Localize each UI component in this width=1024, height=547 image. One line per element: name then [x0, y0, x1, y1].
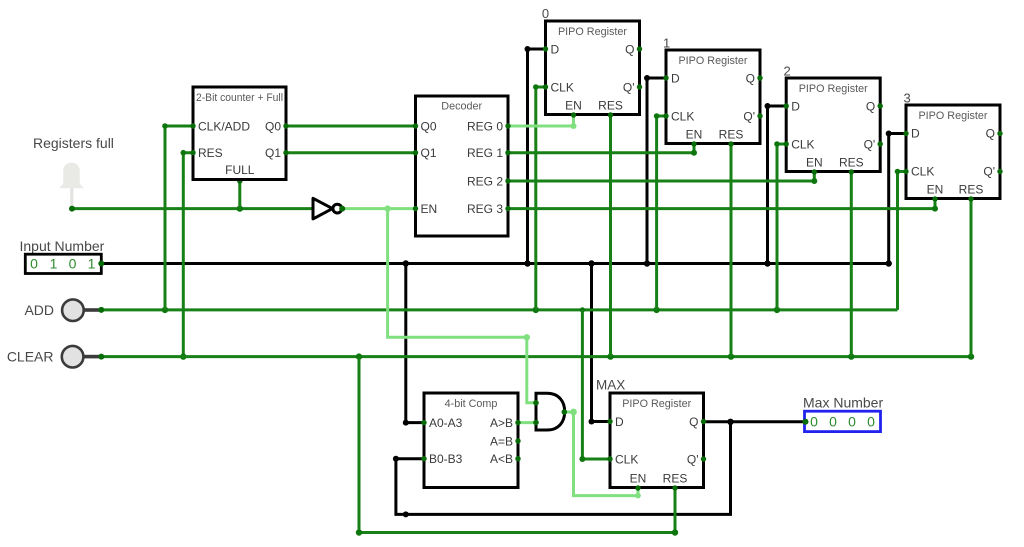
- svg-text:4-bit Comp: 4-bit Comp: [445, 398, 498, 410]
- svg-text:Q1: Q1: [421, 146, 437, 160]
- wire: MAX Q feedback to B0-B3 of comparator (black): [393, 422, 731, 518]
- wire: MAX Q to Max Number display (black): [727, 419, 804, 425]
- svg-text:CLK: CLK: [671, 109, 694, 123]
- svg-text:Q': Q': [623, 80, 635, 94]
- svg-text:REG 1: REG 1: [467, 146, 503, 160]
- svg-text:1: 1: [663, 36, 670, 51]
- Decoder box U2: [413, 96, 511, 236]
- svg-text:EN: EN: [421, 202, 438, 216]
- wire: CLK column of PIPO 1: [654, 113, 666, 310]
- wire: CLEAR branch to MAX RES (bottom green bus): [356, 357, 678, 536]
- wire: bus branch to D of PIPO 3: [886, 131, 906, 264]
- svg-text:EN: EN: [806, 156, 823, 170]
- svg-text:EN: EN: [927, 183, 944, 197]
- svg-text:MAX: MAX: [596, 378, 625, 393]
- svg-text:Q: Q: [625, 42, 634, 56]
- 2-bit counter box U1: [190, 87, 288, 180]
- wire: comparator A>B to AND gate input (light green): [518, 421, 536, 424]
- svg-text:REG 0: REG 0: [467, 119, 503, 133]
- svg-text:REG 2: REG 2: [467, 174, 503, 188]
- svg-text:EN: EN: [565, 99, 582, 113]
- wire: decoder REG 2 to PIPO 2 EN: [508, 172, 817, 185]
- svg-text:CLK: CLK: [615, 452, 638, 466]
- svg-text:Q: Q: [689, 415, 698, 429]
- svg-text:D: D: [911, 126, 920, 140]
- Input Number display IN1: [20, 238, 105, 274]
- svg-text:Q': Q': [743, 109, 755, 123]
- svg-text:RES: RES: [719, 128, 744, 142]
- svg-text:D: D: [615, 415, 624, 429]
- svg-text:CLK/ADD: CLK/ADD: [198, 119, 250, 133]
- 4-bit comparator box U4: [421, 393, 520, 488]
- wire: counter Q0 to decoder Q0: [286, 125, 416, 128]
- svg-text:D: D: [551, 42, 560, 56]
- svg-text:B0-B3: B0-B3: [429, 452, 463, 466]
- svg-text:Q': Q': [687, 452, 699, 466]
- svg-text:D: D: [671, 71, 680, 85]
- NOT gate U3: [313, 198, 345, 219]
- svg-text:RES: RES: [198, 146, 223, 160]
- svg-text:2: 2: [784, 64, 791, 79]
- svg-text:0: 0: [848, 414, 856, 430]
- CLEAR button SW2: [7, 346, 104, 368]
- svg-text:ADD: ADD: [24, 302, 54, 318]
- svg-text:A>B: A>B: [490, 416, 513, 430]
- svg-text:Registers full: Registers full: [33, 135, 114, 151]
- svg-text:3: 3: [904, 91, 911, 106]
- svg-text:EN: EN: [686, 128, 703, 142]
- wire: bus branch to A0-A3 of comparator: [403, 264, 424, 426]
- svg-text:Input Number: Input Number: [20, 238, 105, 254]
- svg-text:D: D: [791, 99, 800, 113]
- wire: FULL pin stub of counter: [237, 178, 243, 209]
- svg-text:RES: RES: [598, 99, 623, 113]
- svg-text:0: 0: [829, 414, 837, 430]
- svg-text:Q': Q': [983, 164, 995, 178]
- svg-text:Decoder: Decoder: [441, 101, 482, 113]
- wire: counter RES column: [180, 150, 193, 360]
- PIPO Register 3: [903, 91, 1002, 202]
- wire: light green EN net to AND gate input: [388, 209, 536, 403]
- wire: AND output to MAX EN (light green): [564, 409, 641, 499]
- svg-text:CLK: CLK: [791, 137, 814, 151]
- svg-text:Q0: Q0: [265, 119, 281, 133]
- wire: CLEAR net (dark green, y=356.6): [101, 353, 974, 359]
- wire: decoder REG 0 to PIPO 0 EN (light green): [508, 115, 577, 130]
- wire: counter CLK/ADD column: [162, 123, 193, 310]
- svg-text:RES: RES: [959, 183, 984, 197]
- svg-text:RES: RES: [663, 472, 688, 486]
- PIPO Register 2: [784, 64, 883, 175]
- svg-text:Q': Q': [864, 137, 876, 151]
- wire: input-number bus (black, y=263.5): [101, 260, 892, 266]
- svg-text:A<B: A<B: [490, 452, 513, 466]
- wire: bus branch to D of PIPO 0: [525, 46, 546, 264]
- wire: CLK column of PIPO 2: [774, 141, 786, 310]
- svg-text:0: 0: [867, 414, 875, 430]
- wire: bus branch to D of MAX register: [589, 264, 611, 425]
- svg-text:PIPO Register: PIPO Register: [622, 398, 691, 410]
- svg-text:Q0: Q0: [421, 119, 437, 133]
- svg-text:EN: EN: [630, 472, 647, 486]
- wire: counter Q1 to decoder Q1: [286, 151, 416, 154]
- svg-text:CLK: CLK: [911, 164, 934, 178]
- wire: CLK column of PIPO 0: [533, 84, 546, 310]
- PIPO Register MAX: [607, 393, 706, 491]
- wire: CLK column of PIPO 3: [895, 169, 906, 310]
- wire: bus branch to D of PIPO 2: [765, 103, 787, 264]
- PIPO Register 0: [542, 6, 642, 118]
- svg-text:CLEAR: CLEAR: [7, 348, 54, 364]
- wire: RES column of PIPO 1: [730, 144, 733, 357]
- wire: RES column of PIPO 0: [609, 115, 612, 357]
- svg-text:0: 0: [69, 256, 77, 272]
- wire: decoder REG 1 to PIPO 1 EN: [508, 144, 697, 156]
- svg-text:CLK: CLK: [551, 80, 574, 94]
- svg-text:2-Bit counter + Full: 2-Bit counter + Full: [196, 92, 283, 104]
- svg-text:0: 0: [30, 256, 38, 272]
- svg-text:1: 1: [50, 256, 58, 272]
- LED "Registers full": [60, 163, 84, 212]
- svg-text:PIPO Register: PIPO Register: [799, 83, 868, 95]
- svg-text:0: 0: [810, 414, 818, 430]
- svg-text:REG 3: REG 3: [467, 202, 503, 216]
- svg-text:Q: Q: [866, 99, 875, 113]
- svg-text:A=B: A=B: [490, 434, 513, 448]
- Max Number display OUT1: [803, 395, 884, 432]
- wire: bus branch to D of PIPO 1: [644, 75, 666, 264]
- wire: RES column of PIPO 2: [850, 172, 853, 357]
- svg-text:PIPO Register: PIPO Register: [558, 26, 627, 38]
- wire: FULL output to NOT gate input (dark green, y=208.6): [72, 205, 313, 211]
- svg-text:Q1: Q1: [265, 146, 281, 160]
- svg-text:1: 1: [88, 256, 96, 272]
- wire: ADD net (dark green, y=309.9): [101, 307, 897, 313]
- wire: decoder REG 3 to PIPO 3 EN: [508, 199, 938, 212]
- svg-text:Q: Q: [746, 71, 755, 85]
- svg-text:PIPO Register: PIPO Register: [918, 110, 987, 122]
- wire: NOT output to decoder EN (light green): [342, 205, 416, 211]
- ADD button SW1: [24, 299, 104, 321]
- wire: CLK column of MAX register: [579, 310, 610, 462]
- svg-text:A0-A3: A0-A3: [429, 416, 463, 430]
- svg-text:RES: RES: [839, 156, 864, 170]
- svg-text:0: 0: [542, 6, 549, 21]
- svg-text:Q: Q: [986, 126, 995, 140]
- svg-text:Max Number: Max Number: [803, 395, 883, 411]
- wire: RES column of PIPO 3: [970, 199, 973, 357]
- svg-text:PIPO Register: PIPO Register: [678, 55, 747, 67]
- PIPO Register 1: [663, 36, 763, 147]
- AND gate U5: [533, 393, 567, 430]
- svg-text:FULL: FULL: [225, 163, 255, 177]
